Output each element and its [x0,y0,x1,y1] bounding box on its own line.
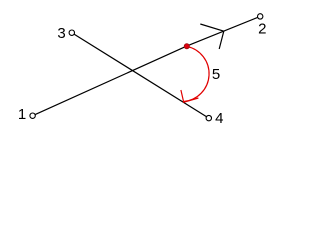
endpoint circle point 1 [30,113,35,118]
endpoint circle point 2 [258,14,263,19]
red point on line 1-2 [184,44,189,49]
endpoint circle point 4 [206,115,211,120]
svg-text:3: 3 [57,25,65,42]
arrow mark on line 1-2 [200,24,224,49]
svg-text:1: 1 [18,106,26,123]
svg-text:4: 4 [215,110,223,127]
red arc 5 [184,46,209,101]
red arrowhead at arc end [181,90,199,102]
svg-text:5: 5 [212,66,220,83]
endpoint circle point 3 [69,30,74,35]
svg-text:2: 2 [258,20,266,37]
line 1-2 [33,16,261,115]
line 3-4 [72,33,209,118]
